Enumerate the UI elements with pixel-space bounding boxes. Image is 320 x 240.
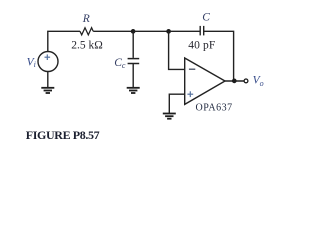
voltage source Vi	[38, 52, 58, 72]
wire: output	[225, 80, 244, 82]
capacitor C (feedback)	[200, 26, 204, 36]
wire: source top to resistor	[48, 31, 80, 51]
svg-text:40 pF: 40 pF	[188, 40, 215, 52]
wire: node A to node B	[133, 30, 168, 32]
svg-text:Vi: Vi	[27, 56, 36, 69]
inverting input - mark	[189, 68, 195, 70]
svg-text:2.5 kΩ: 2.5 kΩ	[71, 40, 103, 52]
capacitor Cc	[128, 31, 140, 87]
svg-text:R: R	[82, 13, 90, 25]
op-amp U1 OPA637	[185, 58, 225, 104]
svg-text:FIGURE P8.57: FIGURE P8.57	[26, 128, 100, 142]
wire: resistor to node A	[93, 30, 133, 32]
node A (Cc junction)	[131, 29, 136, 34]
node B (feedback junction)	[166, 29, 171, 34]
+ polarity mark of Vi	[45, 54, 51, 60]
node: output junction	[232, 79, 237, 84]
ground (under +input)	[163, 114, 176, 119]
wire: node B to capacitor C	[169, 30, 201, 32]
wire: node B down to inverting input	[169, 31, 185, 69]
svg-text:Cc: Cc	[114, 57, 126, 70]
wire: capacitor C to output node	[204, 31, 234, 81]
non-inverting input + mark	[187, 91, 193, 97]
wire: source bottom to ground	[47, 72, 49, 88]
wire: +input to ground	[169, 94, 184, 113]
svg-text:OPA637: OPA637	[196, 103, 233, 114]
svg-text:Vo: Vo	[253, 75, 264, 88]
resistor R	[80, 28, 93, 35]
svg-text:C: C	[202, 12, 210, 24]
ground (under Cc)	[127, 88, 140, 93]
ground (under source)	[41, 88, 54, 93]
terminal Vo (open circle)	[244, 79, 248, 83]
